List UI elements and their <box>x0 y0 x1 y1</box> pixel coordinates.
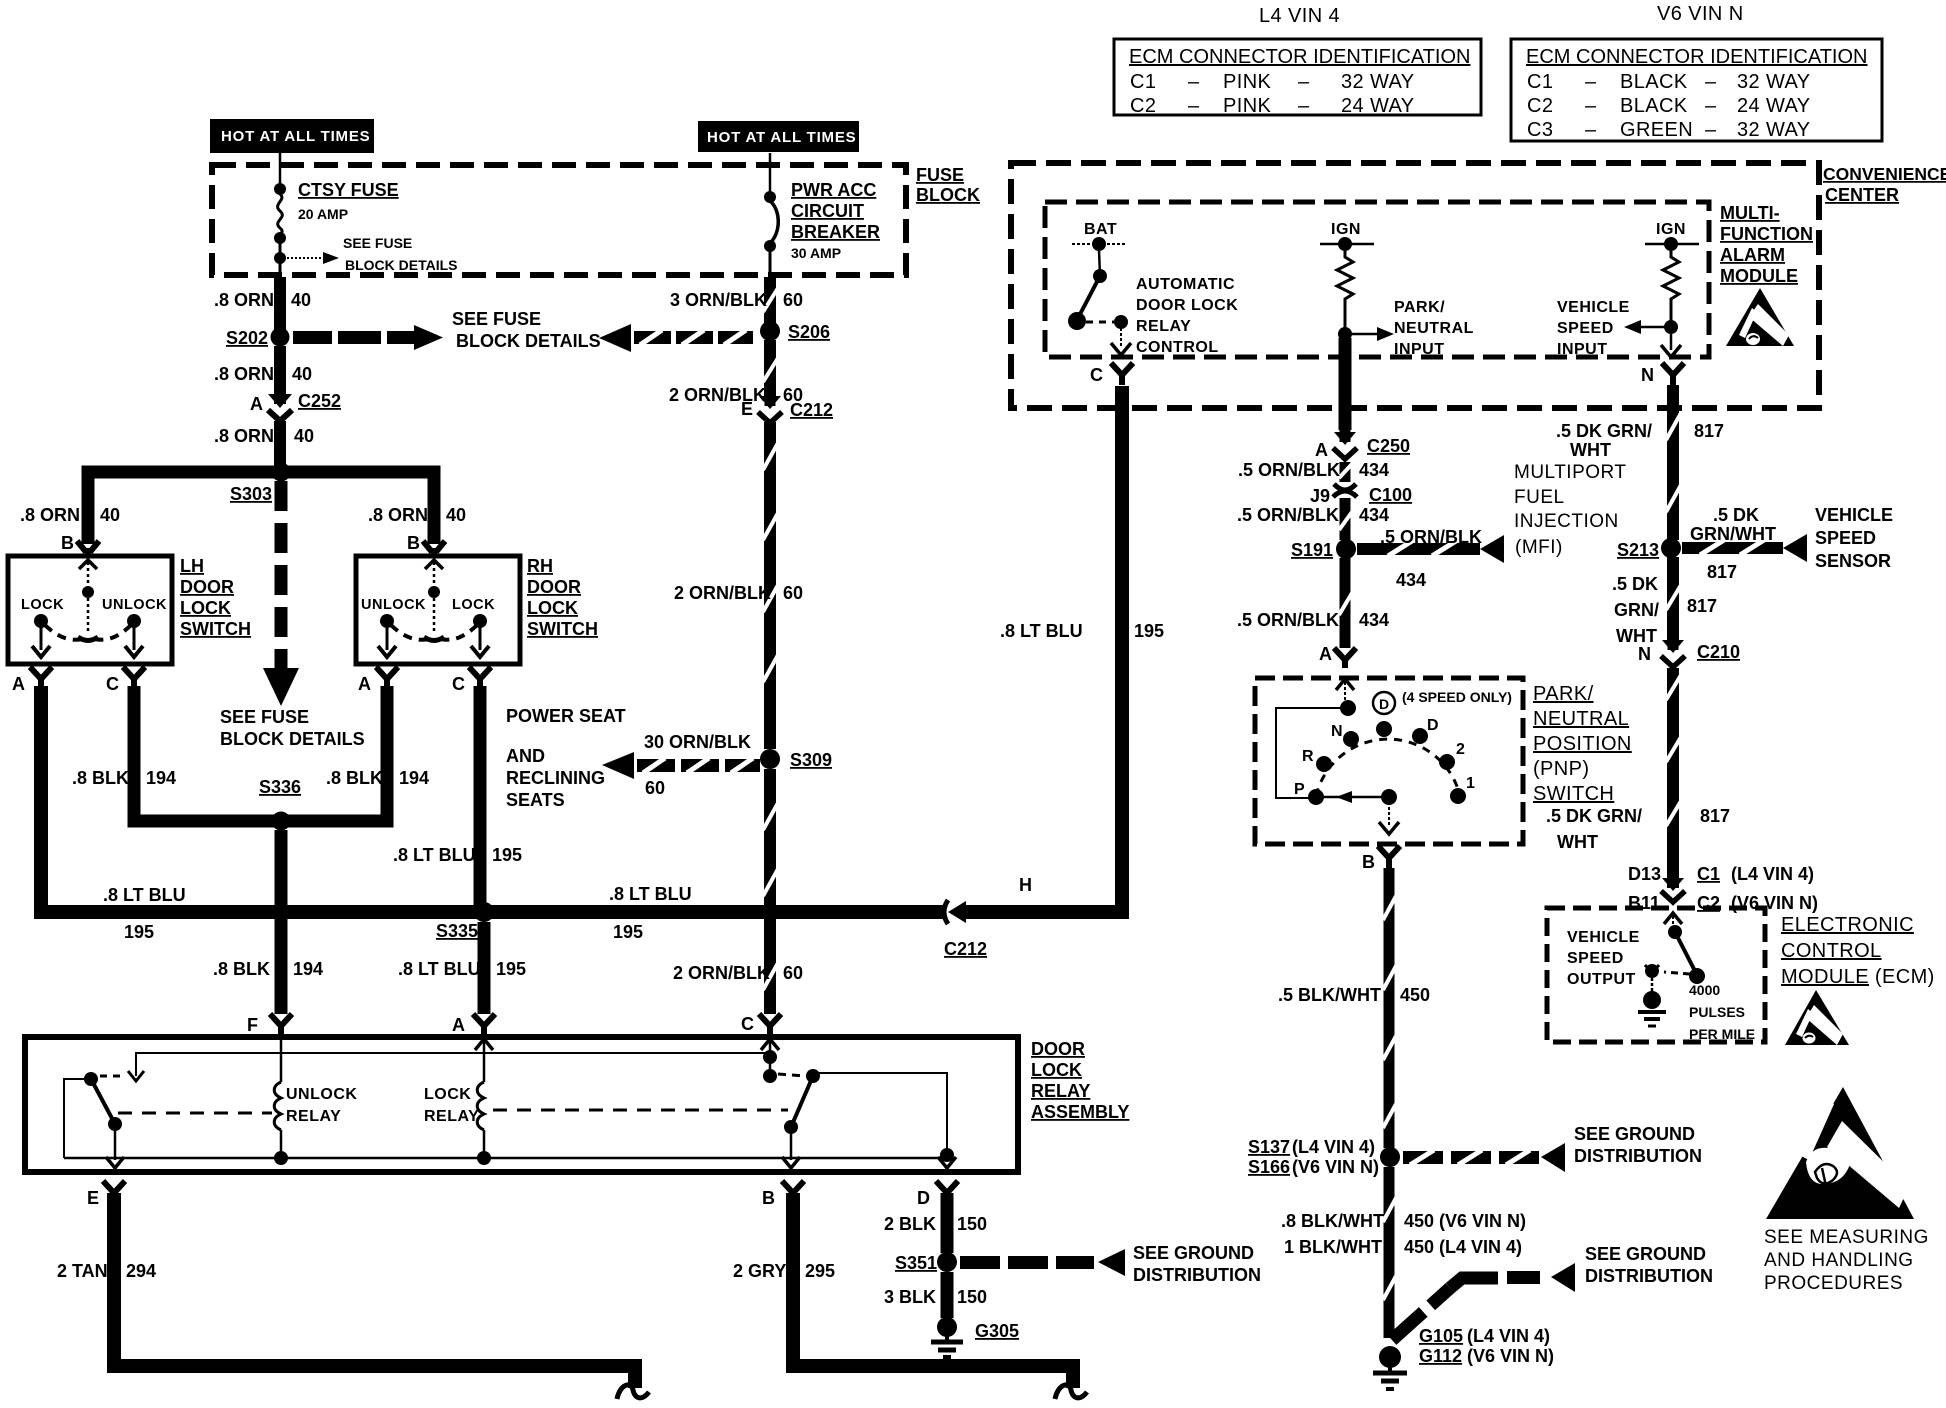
svg-text:MULTIPORT: MULTIPORT <box>1514 462 1627 483</box>
svg-text:MODULE (ECM): MODULE (ECM) <box>1781 966 1935 988</box>
automatic door lock relay control switch <box>1068 250 1131 355</box>
svg-text:VEHICLE: VEHICLE <box>1557 299 1630 316</box>
label .8 ORN 40 <box>214 364 312 384</box>
label .5 ORN/BLK 434 <box>1237 610 1389 630</box>
connector C250 terminal A <box>1333 430 1357 459</box>
dashes pivot to arrow <box>100 1075 126 1078</box>
svg-text:N: N <box>1638 644 1651 664</box>
loop wire to P contact <box>1276 708 1348 798</box>
junction dot right <box>940 1148 954 1162</box>
svg-text:A: A <box>1319 644 1332 664</box>
arrow B (inside box) <box>782 1157 800 1168</box>
label VEHICLE SPEED OUTPUT <box>1567 929 1640 988</box>
right switch blade <box>791 1076 813 1127</box>
svg-text:195: 195 <box>1134 621 1164 641</box>
terminal B (PNP) <box>1378 846 1400 868</box>
svg-text:(L4 VIN 4): (L4 VIN 4) <box>1731 864 1814 884</box>
svg-text:ECM CONNECTOR IDENTIFICATION: ECM CONNECTOR IDENTIFICATION <box>1526 46 1867 68</box>
svg-text:.8 BLK: .8 BLK <box>326 768 383 788</box>
svg-text:BAT: BAT <box>1084 221 1117 238</box>
splice S137/S166 <box>1380 1147 1400 1167</box>
label CONVENIENCE CENTER <box>1823 164 1946 205</box>
dashed diagonal to see ground distribution <box>1392 1263 1575 1340</box>
svg-text:C1: C1 <box>1527 71 1553 93</box>
svg-text:S335: S335 <box>436 921 478 941</box>
svg-text:60: 60 <box>783 963 803 983</box>
svg-text:FUNCTION: FUNCTION <box>1720 224 1813 244</box>
svg-text:.5 DK: .5 DK <box>1612 574 1658 594</box>
label E C212 <box>741 399 833 420</box>
svg-text:C100: C100 <box>1369 485 1412 505</box>
svg-text:CONTROL: CONTROL <box>1136 339 1219 356</box>
svg-text:4000: 4000 <box>1689 982 1720 998</box>
label N C210 <box>1638 642 1740 664</box>
svg-text:F: F <box>247 1015 258 1035</box>
svg-text:HOT AT ALL TIMES: HOT AT ALL TIMES <box>221 128 370 145</box>
svg-text:BREAKER: BREAKER <box>791 222 880 242</box>
label J9 C100 <box>1310 485 1412 506</box>
table V6 row C1 <box>1527 71 1811 93</box>
svg-text:.8 ORN: .8 ORN <box>214 426 274 446</box>
svg-text:.8 ORN: .8 ORN <box>214 364 274 384</box>
svg-text:PER MILE: PER MILE <box>1689 1026 1755 1042</box>
svg-text:1: 1 <box>1466 775 1475 792</box>
junction dot lock coil <box>477 1151 491 1165</box>
splice S336 <box>272 812 291 831</box>
junction dot unlock coil <box>274 1151 288 1165</box>
label SEE GROUND DISTRIBUTION <box>1133 1243 1261 1285</box>
svg-text:S303: S303 <box>230 484 272 504</box>
ground G105/G112 <box>1373 1346 1407 1389</box>
svg-text:L4 VIN 4: L4 VIN 4 <box>1259 5 1340 27</box>
wire LH C (.8 BLK 194) down to S336 <box>134 686 275 821</box>
label PARK/NEUTRAL POSITION (PNP) SWITCH <box>1533 683 1632 805</box>
arrow E (inside box) <box>106 1157 124 1168</box>
wire 2 ORN/BLK 60 (C212 to S309) <box>763 422 778 749</box>
arrowhead down <box>263 668 299 706</box>
wire .8 ORN 40 (fuse to S202) <box>274 277 286 331</box>
svg-text:.5 DK GRN/: .5 DK GRN/ <box>1546 806 1642 826</box>
svg-text:.8 ORN: .8 ORN <box>368 505 428 525</box>
svg-text:VEHICLE: VEHICLE <box>1567 929 1640 946</box>
coil to bottom bus <box>280 1130 283 1158</box>
wire 2 GRY 295 (B run) <box>793 1193 1080 1366</box>
label .8 ORN 40 <box>214 290 311 310</box>
PNP rotary arc (dashed) <box>1316 739 1460 796</box>
svg-text:SEE GROUND: SEE GROUND <box>1133 1243 1254 1263</box>
svg-text:DISTRIBUTION: DISTRIBUTION <box>1133 1265 1261 1285</box>
svg-text:C212: C212 <box>790 400 833 420</box>
label .8 BLK 194 (LH) <box>72 768 176 788</box>
wire .5 ORN/BLK 434 (C250 to C100) <box>1339 462 1352 482</box>
svg-text:BLOCK: BLOCK <box>916 185 980 205</box>
fuse block dashed box <box>212 165 906 275</box>
svg-text:BLOCK DETAILS: BLOCK DETAILS <box>456 331 601 351</box>
svg-text:BLOCK DETAILS: BLOCK DETAILS <box>345 257 458 273</box>
wire LH A down to LT BLU bus <box>34 686 48 912</box>
svg-text:POWER SEAT: POWER SEAT <box>506 706 626 726</box>
wire blade to E exit <box>114 1130 117 1160</box>
svg-text:.8 LT BLU: .8 LT BLU <box>103 885 186 905</box>
svg-text:194: 194 <box>399 768 429 788</box>
svg-text:SEE FUSE: SEE FUSE <box>452 309 541 329</box>
svg-text:G305: G305 <box>975 1321 1019 1341</box>
svg-text:RELAY: RELAY <box>1136 318 1191 335</box>
svg-text:RECLINING: RECLINING <box>506 768 605 788</box>
svg-text:PARK/: PARK/ <box>1394 299 1445 316</box>
svg-text:450 (L4 VIN 4): 450 (L4 VIN 4) <box>1404 1237 1522 1257</box>
svg-text:–: – <box>1705 71 1717 93</box>
svg-text:SEE GROUND: SEE GROUND <box>1585 1244 1706 1264</box>
junction dot <box>1338 327 1352 341</box>
svg-text:.5 ORN/BLK: .5 ORN/BLK <box>1237 505 1339 525</box>
svg-text:B: B <box>762 1188 775 1208</box>
arrow C (inside box, up) <box>761 1039 779 1050</box>
wire .5 BLK/WHT 450 (PNP B to S137) <box>1383 868 1396 1148</box>
svg-text:60: 60 <box>783 290 803 310</box>
svg-text:RELAY: RELAY <box>286 1108 341 1125</box>
connector C100 terminal J9 <box>1333 484 1357 497</box>
svg-text:.5 DK GRN/: .5 DK GRN/ <box>1556 421 1652 441</box>
svg-text:S137: S137 <box>1248 1137 1290 1157</box>
svg-text:1 BLK/WHT: 1 BLK/WHT <box>1284 1237 1382 1257</box>
wire 3 ORN/BLK 60 (breaker to S206) <box>763 277 778 323</box>
wire S335 down (.8 LT BLU 195) to relay A <box>478 922 491 1014</box>
svg-text:817: 817 <box>1700 806 1730 826</box>
label FUSE BLOCK <box>916 165 980 205</box>
label .8 LT BLU 195 (left) <box>103 885 186 942</box>
svg-text:.8 LT BLU: .8 LT BLU <box>1000 621 1083 641</box>
svg-text:PINK: PINK <box>1223 95 1272 117</box>
svg-text:.5 ORN/BLK: .5 ORN/BLK <box>1237 610 1339 630</box>
left switch pivot <box>84 1072 98 1086</box>
svg-text:PULSES: PULSES <box>1689 1004 1745 1020</box>
svg-text:LOCK: LOCK <box>1031 1060 1082 1080</box>
dashed link lock coil to right switch <box>493 1109 788 1112</box>
svg-text:A: A <box>250 394 263 414</box>
label .5 DK GRN/ WHT 817 <box>1612 574 1717 646</box>
left switch blade <box>91 1079 115 1124</box>
label PARK/NEUTRAL INPUT <box>1394 299 1474 358</box>
LH door lock switch box <box>8 556 172 664</box>
svg-text:WHT: WHT <box>1616 626 1657 646</box>
ECM internals: entry arrow <box>1664 913 1682 924</box>
svg-text:G105: G105 <box>1419 1326 1463 1346</box>
wire 817 (C210 to ECM) <box>1666 668 1681 845</box>
svg-text:LOCK: LOCK <box>180 598 231 618</box>
svg-text:DISTRIBUTION: DISTRIBUTION <box>1574 1146 1702 1166</box>
svg-text:H: H <box>1019 875 1032 895</box>
contact top (N-D mid) <box>1376 721 1392 737</box>
svg-text:LOCK: LOCK <box>527 598 578 618</box>
arrow see fuse block details (inside fuse block) <box>287 252 339 264</box>
svg-text:FUSE: FUSE <box>916 165 964 185</box>
svg-text:V6 VIN N: V6 VIN N <box>1657 3 1744 25</box>
svg-text:PWR ACC: PWR ACC <box>791 180 876 200</box>
svg-text:–: – <box>1298 95 1310 117</box>
svg-text:–: – <box>1188 71 1200 93</box>
svg-text:GREEN: GREEN <box>1620 119 1693 141</box>
terminal B RH (Y connector) <box>423 541 445 556</box>
wire F into unlock relay coil <box>280 1040 283 1082</box>
right switch pivot <box>806 1069 820 1083</box>
svg-text:30 AMP: 30 AMP <box>791 245 841 261</box>
svg-text:3 BLK: 3 BLK <box>884 1287 936 1307</box>
wire 2 ORN/BLK 60 (S309 to relay C) <box>763 769 778 1014</box>
left stub wire <box>64 1079 84 1158</box>
label .5 BLK/WHT 450 <box>1278 985 1430 1005</box>
dashed arrow S206 to see fuse block details <box>599 324 753 352</box>
label .8 LT BLU 195 <box>393 845 522 865</box>
right switch blade dot <box>784 1120 798 1134</box>
svg-text:294: 294 <box>126 1261 156 1281</box>
svg-text:S213: S213 <box>1617 540 1659 560</box>
svg-text:40: 40 <box>291 290 311 310</box>
svg-text:434: 434 <box>1359 610 1389 630</box>
terminal E <box>103 1181 125 1201</box>
svg-text:N: N <box>1641 365 1654 385</box>
svg-text:.8 LT BLU: .8 LT BLU <box>393 845 476 865</box>
svg-text:GRN/: GRN/ <box>1614 600 1659 620</box>
svg-text:AUTOMATIC: AUTOMATIC <box>1136 276 1235 293</box>
convenience center dashed box <box>1011 163 1819 408</box>
svg-text:SEE MEASURING: SEE MEASURING <box>1764 1227 1929 1248</box>
svg-text:UNLOCK: UNLOCK <box>361 597 426 613</box>
svg-text:.5 DK: .5 DK <box>1713 505 1759 525</box>
svg-text:UNLOCK: UNLOCK <box>102 597 167 613</box>
svg-text:WHT: WHT <box>1557 832 1598 852</box>
svg-text:2 ORN/BLK: 2 ORN/BLK <box>674 583 771 603</box>
label H C212 <box>944 875 1032 959</box>
label SEE FUSE BLOCK DETAILS <box>452 309 601 351</box>
svg-text:817: 817 <box>1707 562 1737 582</box>
terminal A RH <box>376 667 398 686</box>
circuit breaker PWR ACC (symbol) <box>764 153 778 277</box>
svg-text:S351: S351 <box>895 1253 937 1273</box>
svg-text:UNLOCK: UNLOCK <box>286 1086 357 1103</box>
label SEE MEASURING AND HANDLING PROCEDURES <box>1764 1227 1929 1294</box>
label .8 BLK 194 <box>213 959 323 979</box>
svg-text:194: 194 <box>146 768 176 788</box>
wire RH C (.8 LT BLU 195) down to S335 <box>474 686 487 912</box>
terminal A LH <box>30 667 52 686</box>
terminal A (relay) <box>473 1014 495 1036</box>
terminal C (convenience center) <box>1111 363 1133 385</box>
table V6 row C3 <box>1527 119 1811 141</box>
terminal B <box>782 1181 804 1201</box>
svg-text:SPEED: SPEED <box>1815 528 1876 548</box>
svg-text:PROCEDURES: PROCEDURES <box>1764 1273 1903 1294</box>
svg-text:ELECTRONIC: ELECTRONIC <box>1781 914 1914 936</box>
label S137 (L4 VIN 4) S166 (V6 VIN N) <box>1248 1137 1379 1177</box>
label C2 (V6 VIN N) <box>1697 893 1818 913</box>
dashed link left switch to unlock coil <box>118 1112 272 1115</box>
svg-text:D: D <box>1427 717 1439 734</box>
dash C to right switch pivot <box>778 1074 806 1076</box>
svg-text:.8 ORN: .8 ORN <box>20 505 80 525</box>
wire .5 DK GRN/WHT 817 (S213 to C210) <box>1666 557 1681 643</box>
svg-text:J9: J9 <box>1310 486 1330 506</box>
svg-text:40: 40 <box>294 426 314 446</box>
svg-text:150: 150 <box>957 1287 987 1307</box>
label RH DOOR LOCK SWITCH <box>527 556 598 639</box>
svg-text:B: B <box>61 533 74 553</box>
svg-text:817: 817 <box>1694 421 1724 441</box>
label .8 BLK/WHT 450 (V6 VIN N) <box>1281 1211 1526 1231</box>
svg-text:B: B <box>407 533 420 553</box>
label 1 BLK/WHT 450 (L4 VIN 4) <box>1284 1237 1522 1257</box>
svg-text:2 TAN: 2 TAN <box>57 1261 108 1281</box>
svg-text:.8 ORN: .8 ORN <box>214 290 274 310</box>
svg-text:R: R <box>1302 748 1314 765</box>
circled D (4 speed) <box>1373 692 1395 714</box>
table L4 row C2 <box>1130 95 1415 117</box>
table ECM connector identification (L4) <box>1114 39 1481 115</box>
wire .8 ORN 40 (C252 to S303) <box>274 421 286 466</box>
svg-text:D: D <box>917 1188 930 1208</box>
ground G305 <box>931 1317 963 1357</box>
svg-text:CTSY FUSE: CTSY FUSE <box>298 180 399 200</box>
svg-text:AND: AND <box>506 746 545 766</box>
label .8 LT BLU 195 (right) <box>609 884 692 942</box>
svg-text:DOOR: DOOR <box>180 577 234 597</box>
wire 3 BLK 150 (S351 to G305) <box>941 1272 954 1318</box>
svg-text:BLOCK DETAILS: BLOCK DETAILS <box>220 729 365 749</box>
svg-text:RELAY: RELAY <box>424 1108 479 1125</box>
svg-text:VEHICLE: VEHICLE <box>1815 505 1893 525</box>
svg-text:S206: S206 <box>788 322 830 342</box>
label .5 DK GRN/ WHT 817 <box>1556 421 1724 460</box>
svg-text:SPEED: SPEED <box>1567 950 1624 967</box>
coil to bottom bus <box>483 1130 486 1158</box>
svg-text:AND HANDLING: AND HANDLING <box>1764 1250 1914 1271</box>
svg-text:–: – <box>1188 95 1200 117</box>
label PWR ACC CIRCUIT BREAKER 30 AMP <box>791 180 880 261</box>
wire .8 ORN 40 (S202 to C252) <box>274 346 286 398</box>
ESD symbol (ECM) <box>1785 990 1849 1045</box>
svg-text:IGN: IGN <box>1656 221 1686 238</box>
svg-text:CONVENIENCE: CONVENIENCE <box>1823 164 1946 184</box>
svg-text:–: – <box>1585 95 1597 117</box>
label 2 ORN/BLK 60 (mid) <box>674 583 803 603</box>
svg-text:195: 195 <box>613 922 643 942</box>
svg-text:434: 434 <box>1396 570 1426 590</box>
svg-text:HOT AT ALL TIMES: HOT AT ALL TIMES <box>707 129 856 146</box>
splice S213 <box>1661 538 1681 558</box>
label G105 (L4 VIN 4) G112 (V6 VIN N) <box>1419 1326 1554 1366</box>
splice S303 junction <box>272 463 291 482</box>
connector C212 terminal E <box>758 396 782 423</box>
park/neutral position switch dashed box <box>1255 678 1523 844</box>
svg-text:RELAY: RELAY <box>1031 1081 1090 1101</box>
label .8 ORN 40 (right branch) <box>368 505 466 525</box>
svg-text:450 (V6 VIN N): 450 (V6 VIN N) <box>1404 1211 1526 1231</box>
relay bottom bus wire <box>64 1157 947 1160</box>
contact D <box>1412 728 1428 744</box>
label 2 ORN/BLK 60 <box>669 385 803 405</box>
svg-text:A: A <box>1315 440 1328 460</box>
splice S191 <box>1336 539 1356 559</box>
svg-text:–: – <box>1298 71 1310 93</box>
svg-text:A: A <box>452 1015 465 1035</box>
svg-text:C210: C210 <box>1697 642 1740 662</box>
svg-text:2 ORN/BLK: 2 ORN/BLK <box>673 963 770 983</box>
label A C252 <box>250 391 341 414</box>
dashed arrow S202 to see fuse block details <box>293 325 443 350</box>
arrow S213 to vehicle speed sensor (.5 DK GRN/WHT 817) <box>1682 534 1807 562</box>
svg-text:S191: S191 <box>1291 540 1333 560</box>
svg-text:(MFI): (MFI) <box>1515 537 1563 558</box>
dashed arrow S137 to see ground distribution <box>1403 1143 1565 1172</box>
svg-text:.8 LT BLU: .8 LT BLU <box>609 884 692 904</box>
svg-text:PINK: PINK <box>1223 71 1272 93</box>
arrow S191 to MFI (.5 ORN/BLK 434) <box>1357 535 1504 563</box>
svg-text:E: E <box>741 399 753 419</box>
label SEE GROUND DISTRIBUTION <box>1574 1124 1702 1166</box>
arrow to VEHICLE SPEED INPUT label <box>1624 320 1665 334</box>
resistor (vehicle speed input) <box>1663 251 1679 325</box>
svg-text:SENSOR: SENSOR <box>1815 551 1891 571</box>
svg-text:INJECTION: INJECTION <box>1514 511 1619 532</box>
label POWER SEAT AND RECLINING SEATS <box>506 706 626 810</box>
resistor (park/neutral input) <box>1337 251 1353 332</box>
svg-text:MULTI-: MULTI- <box>1720 203 1780 223</box>
svg-text:NEUTRAL: NEUTRAL <box>1394 320 1474 337</box>
svg-text:ALARM: ALARM <box>1720 245 1785 265</box>
svg-text:.8 LT BLU: .8 LT BLU <box>398 959 481 979</box>
svg-text:E: E <box>87 1188 99 1208</box>
svg-text:A: A <box>358 674 371 694</box>
svg-text:C3: C3 <box>1527 119 1553 141</box>
LH switch internals <box>32 560 143 657</box>
ECM switch <box>1645 916 1705 984</box>
entry wire to junction <box>1344 682 1346 708</box>
splice S202 <box>271 328 290 347</box>
dashed wire S303 down to see fuse block details <box>275 481 288 668</box>
svg-text:BLACK: BLACK <box>1620 95 1688 117</box>
svg-text:IGN: IGN <box>1331 221 1361 238</box>
svg-text:DOOR: DOOR <box>527 577 581 597</box>
ECM internal ground <box>1638 978 1666 1026</box>
svg-text:C: C <box>106 674 119 694</box>
contact 1 <box>1450 788 1466 804</box>
svg-text:C: C <box>452 674 465 694</box>
svg-text:INPUT: INPUT <box>1394 341 1445 358</box>
svg-text:OUTPUT: OUTPUT <box>1567 971 1636 988</box>
arrow A (inside box, up) <box>475 1039 493 1050</box>
svg-text:3 ORN/BLK: 3 ORN/BLK <box>670 290 767 310</box>
multi-function alarm module dashed box <box>1045 202 1709 357</box>
svg-text:32 WAY: 32 WAY <box>1737 119 1811 141</box>
wire S303 bus <box>88 472 434 544</box>
svg-text:DOOR: DOOR <box>1031 1039 1085 1059</box>
svg-text:(PNP): (PNP) <box>1533 758 1589 780</box>
svg-text:C: C <box>1090 365 1103 385</box>
fuse CTSY (symbol) <box>274 183 286 277</box>
svg-text:40: 40 <box>292 364 312 384</box>
wire .5 ORN/BLK 434 (C100 to S191) <box>1339 498 1352 540</box>
svg-text:.8 BLK: .8 BLK <box>213 959 270 979</box>
svg-text:.8 BLK: .8 BLK <box>72 768 129 788</box>
svg-text:GRN/WHT: GRN/WHT <box>1690 524 1776 544</box>
label UNLOCK RELAY <box>286 1086 357 1125</box>
table ECM connector identification (V6) <box>1511 39 1882 141</box>
svg-text:C252: C252 <box>298 391 341 411</box>
svg-text:30 ORN/BLK: 30 ORN/BLK <box>644 732 751 752</box>
svg-text:D: D <box>1379 696 1389 712</box>
svg-text:C: C <box>741 1014 754 1034</box>
svg-text:24 WAY: 24 WAY <box>1737 95 1811 117</box>
